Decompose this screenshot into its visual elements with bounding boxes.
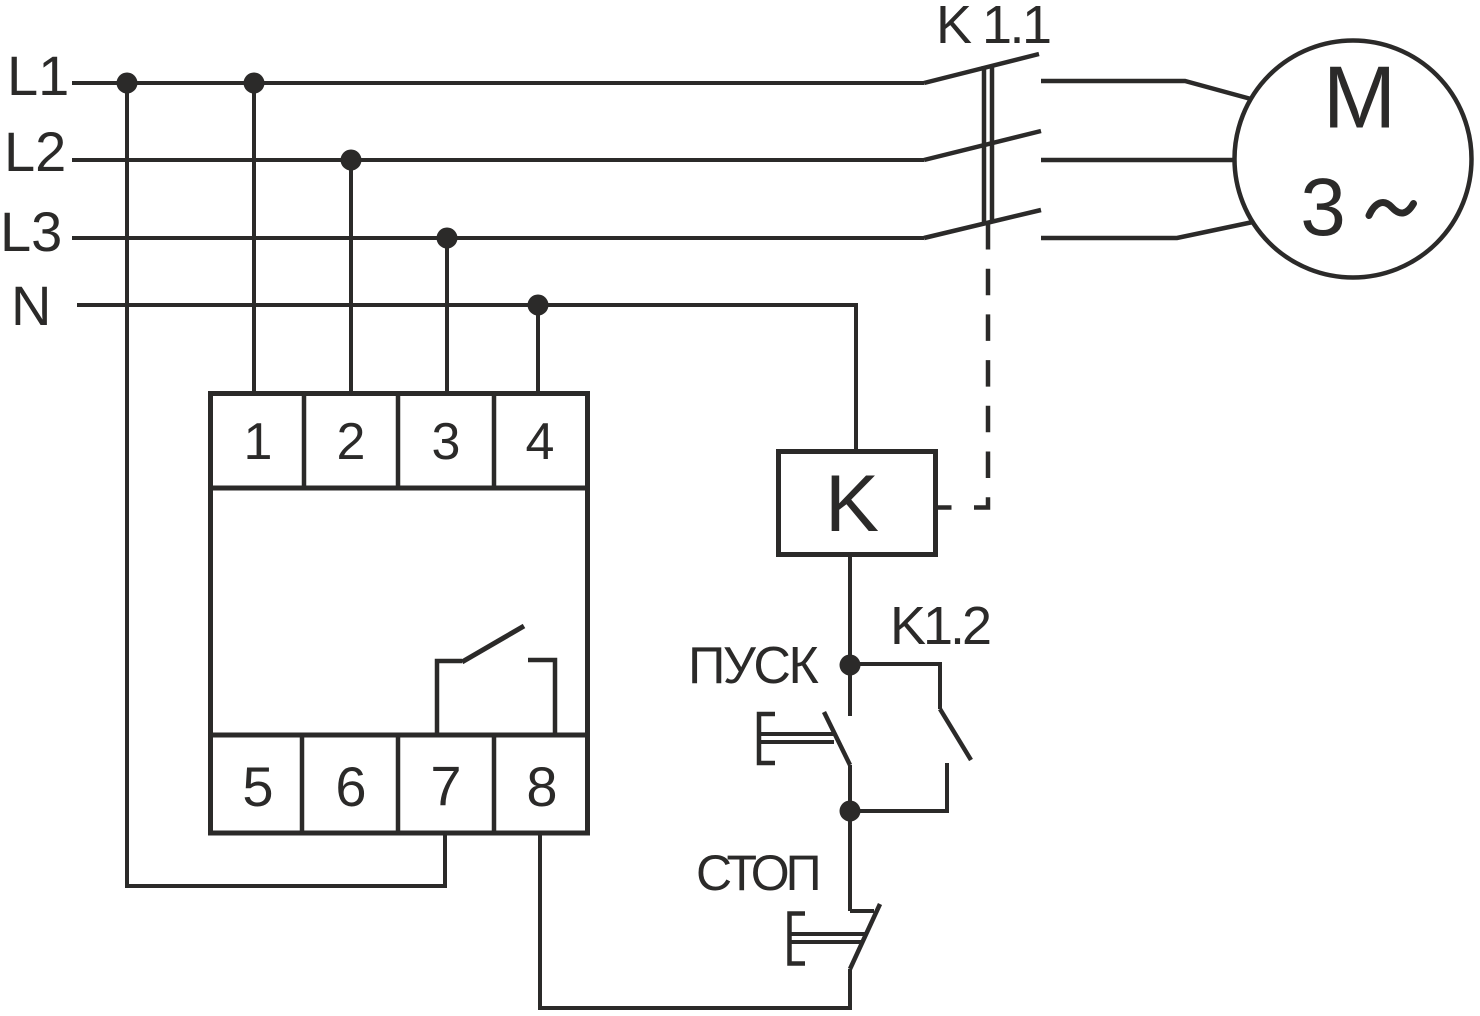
wire L2 bus bbox=[72, 158, 924, 162]
terminal divider 3/4 bbox=[492, 393, 497, 488]
terminal divider 6/7 bbox=[396, 735, 401, 833]
wire motor feed middle bbox=[1041, 158, 1236, 163]
contact K1.2 bottom branch bbox=[850, 763, 947, 811]
pushbutton stop actuator rods bbox=[790, 932, 867, 936]
svg-text:N: N bbox=[11, 274, 51, 337]
svg-text:7: 7 bbox=[430, 754, 461, 817]
svg-text:3: 3 bbox=[1300, 162, 1346, 253]
svg-text:M: M bbox=[1323, 48, 1396, 147]
wire terminal 8 down and right to stop button bbox=[540, 831, 850, 1008]
relay device outline bbox=[211, 394, 588, 834]
pushbutton stop fixed contact stub bbox=[850, 909, 874, 913]
relay internal contact left lead bbox=[437, 661, 462, 737]
relay internal contact blade bbox=[462, 626, 524, 662]
terminal divider 1/2 bbox=[302, 393, 307, 488]
relay device top terminal row bottom edge bbox=[208, 486, 590, 491]
pushbutton stop actuator bracket bbox=[790, 914, 806, 964]
coil K box bbox=[779, 452, 936, 555]
wire terminal 7 down to bottom rail bbox=[443, 831, 447, 886]
pushbutton start blade bbox=[824, 712, 850, 765]
svg-text:K 1.1: K 1.1 bbox=[936, 0, 1050, 55]
svg-text:3: 3 bbox=[432, 413, 461, 471]
pushbutton start actuator bracket bbox=[759, 714, 775, 763]
svg-text:СТОП: СТОП bbox=[696, 845, 818, 901]
wire drop L2 to terminal 2 bbox=[349, 160, 353, 393]
contact K1.2 blade bbox=[940, 709, 971, 760]
wire drop N to terminal 4 bbox=[536, 305, 540, 393]
terminal divider 5/6 bbox=[300, 735, 305, 833]
wire drop L3 to terminal 3 bbox=[445, 238, 449, 393]
wire coil K bottom to start node bbox=[848, 557, 852, 716]
node stop junction bbox=[840, 801, 861, 822]
node start junction bbox=[840, 655, 861, 676]
node junction L1-terminal1 bbox=[244, 73, 265, 94]
relay device bottom terminal row top edge bbox=[208, 733, 590, 738]
svg-text:8: 8 bbox=[526, 755, 557, 818]
svg-text:ПУСК: ПУСК bbox=[688, 637, 818, 695]
svg-text:K: K bbox=[825, 459, 879, 549]
node junction L2-terminal2 bbox=[341, 150, 362, 171]
svg-text:L3: L3 bbox=[0, 200, 62, 263]
pushbutton start actuator rods bbox=[759, 732, 836, 736]
node junction L1-left bbox=[117, 73, 138, 94]
wire drop L1 to terminal 1 bbox=[252, 83, 256, 393]
terminal divider 7/8 bbox=[492, 735, 497, 833]
node junction N-terminal4 bbox=[528, 295, 549, 316]
relay internal contact right lead bbox=[528, 660, 555, 737]
contact K1.2 top branch bbox=[850, 664, 940, 709]
motor M1 circle bbox=[1235, 41, 1472, 278]
svg-text:2: 2 bbox=[337, 413, 366, 471]
svg-text:6: 6 bbox=[335, 755, 366, 818]
contact K1.1 three-phase blades bbox=[924, 54, 1041, 238]
svg-text:5: 5 bbox=[242, 755, 273, 818]
label tilde bbox=[1369, 203, 1414, 216]
wire stop node down to stop button bbox=[848, 811, 852, 911]
pushbutton stop blade bbox=[850, 904, 880, 969]
node junction L3-terminal3 bbox=[437, 228, 458, 249]
wire stub coil K right side bbox=[934, 505, 952, 510]
wire motor feed top bbox=[1041, 81, 1251, 99]
wire motor feed bottom bbox=[1041, 222, 1253, 238]
svg-text:4: 4 bbox=[526, 413, 555, 471]
svg-text:L2: L2 bbox=[4, 120, 66, 183]
wire L1 left drop to bottom rail bbox=[127, 83, 447, 886]
wire N bus with corner down to coil K bbox=[77, 305, 856, 451]
wire dashed link K1.1 to coil K bbox=[974, 223, 988, 508]
wire start node to stop node bbox=[848, 765, 852, 811]
contact K1.1 linkage bars bbox=[984, 66, 992, 223]
svg-text:1: 1 bbox=[244, 413, 273, 471]
terminal divider 2/3 bbox=[396, 393, 401, 488]
wire L3 bus bbox=[72, 236, 924, 240]
wire L1 bus bbox=[72, 81, 924, 85]
svg-text:K1.2: K1.2 bbox=[890, 596, 990, 656]
svg-text:L1: L1 bbox=[7, 44, 69, 107]
